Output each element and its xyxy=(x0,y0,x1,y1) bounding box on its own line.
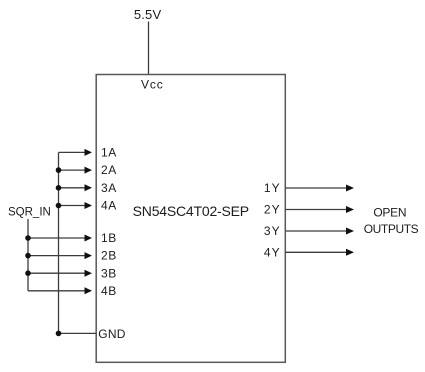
annotation OPEN OUTPUTS xyxy=(364,206,419,237)
wire 1Y output xyxy=(285,185,354,192)
svg-text:1B: 1B xyxy=(101,231,117,245)
svg-text:OPEN: OPEN xyxy=(373,206,406,220)
junction node GND on A bus xyxy=(56,331,62,337)
junction node 1B on B bus xyxy=(25,235,31,241)
wire 4A input xyxy=(59,202,93,209)
wire 2B input xyxy=(28,252,92,259)
wire 3B input xyxy=(28,270,92,277)
svg-text:GND: GND xyxy=(98,327,125,341)
svg-text:3A: 3A xyxy=(101,181,117,195)
svg-text:SQR_IN: SQR_IN xyxy=(8,207,51,219)
svg-text:2A: 2A xyxy=(101,163,117,177)
svg-text:2Y: 2Y xyxy=(264,203,281,217)
wire 1B input xyxy=(28,235,92,242)
svg-text:Vcc: Vcc xyxy=(141,78,164,92)
svg-text:4B: 4B xyxy=(101,284,117,298)
junction node 2B on B bus xyxy=(25,253,31,259)
wire GND connection xyxy=(59,332,97,334)
svg-text:1Y: 1Y xyxy=(264,181,281,195)
wire A-input bus (1A to GND) xyxy=(58,152,60,333)
wire 2A input xyxy=(59,167,93,174)
svg-text:SN54SC4T02-SEP: SN54SC4T02-SEP xyxy=(133,203,249,219)
junction node 2A on A bus xyxy=(56,167,62,173)
junction node 4A on A bus xyxy=(56,203,62,209)
svg-text:2B: 2B xyxy=(101,249,117,263)
wire Vcc supply from 5.5V to Vcc pin xyxy=(148,22,150,75)
IC U1 SN54SC4T02-SEP body xyxy=(96,75,285,363)
svg-text:OUTPUTS: OUTPUTS xyxy=(364,222,419,236)
wire SQR_IN B-input bus xyxy=(27,219,29,291)
wire 4B input xyxy=(28,287,92,294)
junction node 3B on B bus xyxy=(25,270,31,276)
svg-text:3B: 3B xyxy=(101,266,117,280)
wire 2Y output xyxy=(285,206,354,213)
junction node 3A on A bus xyxy=(56,185,62,191)
svg-text:4Y: 4Y xyxy=(264,245,281,259)
svg-text:5.5V: 5.5V xyxy=(134,7,162,22)
svg-text:4A: 4A xyxy=(101,199,117,213)
wire 3A input xyxy=(59,184,93,191)
svg-text:1A: 1A xyxy=(101,146,117,160)
wire 4Y output xyxy=(285,249,354,256)
wire 3Y output xyxy=(285,228,354,235)
svg-text:3Y: 3Y xyxy=(264,224,281,238)
wire 1A input xyxy=(59,149,93,156)
